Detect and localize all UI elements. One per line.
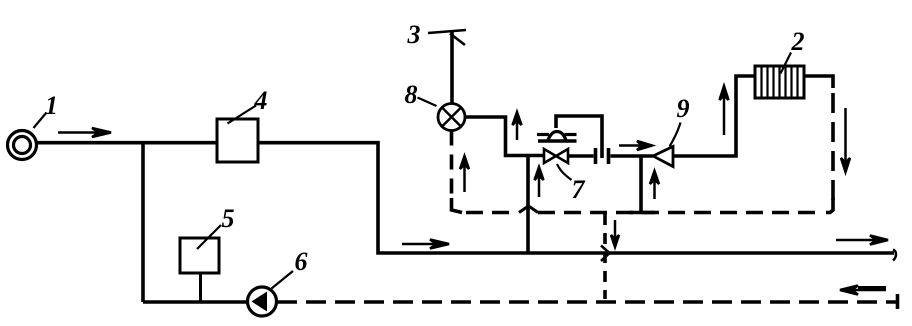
svg-text:7: 7 bbox=[572, 175, 586, 204]
svg-text:1: 1 bbox=[45, 91, 58, 120]
svg-text:8: 8 bbox=[405, 80, 418, 109]
svg-text:2: 2 bbox=[791, 27, 805, 56]
svg-text:3: 3 bbox=[407, 20, 421, 49]
svg-text:6: 6 bbox=[295, 247, 308, 276]
svg-text:5: 5 bbox=[222, 204, 235, 233]
svg-text:4: 4 bbox=[254, 86, 268, 115]
svg-text:9: 9 bbox=[677, 94, 690, 123]
